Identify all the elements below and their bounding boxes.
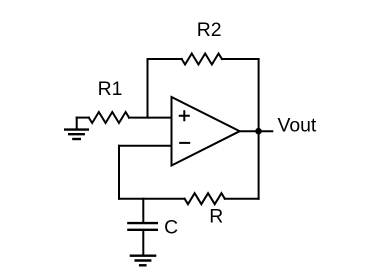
wire: top horizontal right lead from R2 to right rail [222, 58, 259, 60]
svg-text:R2: R2 [197, 19, 222, 41]
wire: top-left feedback vertical from R2 row down to + input [147, 59, 149, 118]
svg-text:Vout: Vout [278, 115, 317, 137]
wire: from R1 into op-amp + input [129, 117, 172, 119]
svg-text:R: R [209, 206, 223, 228]
resistor R2 [182, 54, 222, 65]
resistor R [185, 193, 225, 204]
svg-text:C: C [164, 217, 178, 239]
ground (bottom, under capacitor) [130, 256, 157, 266]
wire: bottom horizontal from left vertical to R (capacitor tap at x=143.3) [119, 198, 185, 200]
wire: left vertical of lower loop [118, 146, 120, 199]
ground (left) [64, 118, 89, 139]
op-amp U1 [172, 97, 240, 166]
svg-text:R1: R1 [98, 78, 123, 100]
node: output junction dot [255, 128, 262, 135]
wire: op-amp output to Vout [240, 130, 273, 132]
wire: right vertical rail from top row through output node to bottom row [258, 59, 260, 199]
wire: op-amp - input horizontal [119, 145, 172, 147]
capacitor C [127, 199, 158, 255]
resistor R1 [89, 112, 129, 123]
wire: top horizontal left lead to R2 [148, 58, 182, 60]
wire: stub from ground to R1 [77, 117, 89, 119]
wire: from R to right rail bottom corner [225, 198, 259, 200]
